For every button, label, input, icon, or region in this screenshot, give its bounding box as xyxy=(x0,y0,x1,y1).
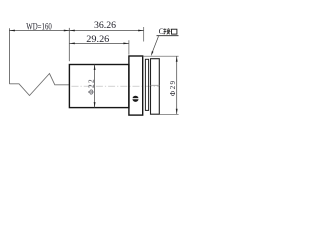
node label C-interface leader xyxy=(152,36,159,54)
svg-text:36.26: 36.26 xyxy=(94,20,117,30)
wire extension line phi29 bottom xyxy=(159,113,178,115)
centerline (axis) xyxy=(72,85,160,87)
wire extension line right of 36.26 xyxy=(143,27,145,42)
node flange xyxy=(129,56,143,115)
wire dimension 29.26 line xyxy=(69,42,129,44)
wire extension line phi29 top xyxy=(143,55,179,57)
svg-text:29.26: 29.26 xyxy=(86,34,110,44)
svg-text:Φ22: Φ22 xyxy=(87,78,95,95)
node cap xyxy=(151,59,160,114)
svg-text:C: C xyxy=(159,27,164,36)
wire extension line common (left of body) xyxy=(68,28,70,61)
svg-text:Φ29: Φ29 xyxy=(169,80,177,97)
node label glyph kou xyxy=(172,29,177,34)
wire dimension phi29 vertical line xyxy=(176,56,178,114)
wire dimension WD=160 line xyxy=(9,30,69,32)
node label glyph jie xyxy=(164,28,171,34)
wire dimension 36.26 line xyxy=(69,30,143,32)
node main body (lens barrel) xyxy=(69,65,128,108)
svg-text:WD=160: WD=160 xyxy=(26,22,52,32)
wire extension line right of 29.26 xyxy=(128,40,130,54)
screw xyxy=(132,96,138,102)
node ring xyxy=(145,59,148,110)
wire dimension phi22 vertical line xyxy=(94,65,96,108)
wire (cable with break zigzag) xyxy=(9,74,69,96)
cap slot line xyxy=(151,84,160,86)
wire extension line left (WD) xyxy=(8,28,10,84)
